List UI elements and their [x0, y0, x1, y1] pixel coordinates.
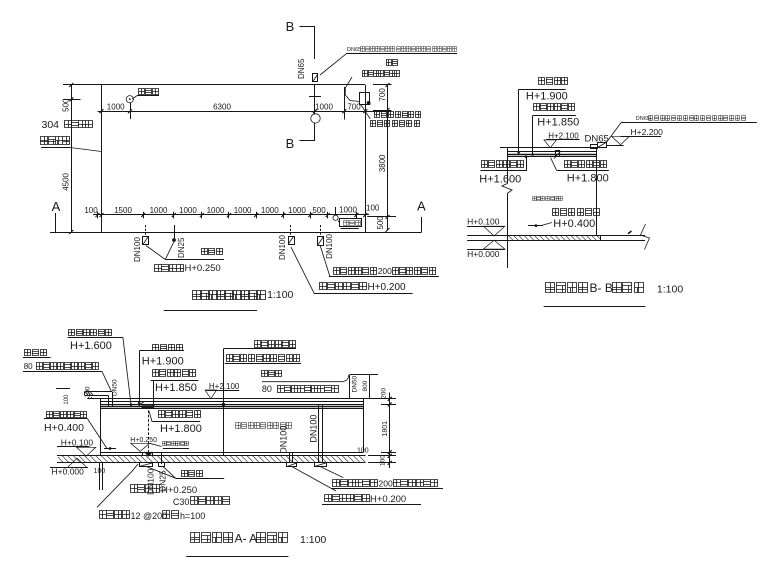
suction pipe bottom arrow — [145, 452, 152, 456]
floor slab A-A with hatch — [57, 455, 366, 457]
leader to low water mark A-A — [88, 419, 107, 449]
A-A title underline — [186, 556, 288, 558]
annotation drain install height H+0.200 A-A — [325, 495, 370, 502]
svg-text:H+0.200: H+0.200 — [370, 494, 406, 505]
svg-text:H+1.850: H+1.850 — [537, 117, 579, 129]
right gooseneck vent pipe A-A — [349, 375, 351, 399]
svg-text:A- A: A- A — [235, 532, 258, 546]
floor slab B-B with hatch — [467, 235, 645, 237]
svg-text:H+1.900: H+1.900 — [526, 91, 568, 103]
svg-text:DN100: DN100 — [325, 233, 334, 258]
svg-text:DN100: DN100 — [133, 237, 142, 262]
drain pipe DN100 — [289, 453, 291, 463]
label single layer rebar 12@200 h=100 — [100, 511, 130, 519]
leader from slab to rebar note — [97, 471, 132, 507]
vent arm line rising to gooseneck — [262, 375, 349, 382]
svg-text:DN65: DN65 — [585, 133, 609, 144]
svg-text:H+0.250: H+0.250 — [185, 263, 221, 274]
tiny text right of H+0.250 — [163, 442, 189, 446]
svg-text:H+1.600: H+1.600 — [479, 174, 521, 186]
svg-text:1000: 1000 — [315, 102, 333, 111]
outlet leaders A-A — [146, 466, 176, 478]
svg-text:200: 200 — [378, 266, 392, 276]
outlet DN25 below slab — [161, 453, 163, 465]
svg-text:DN65: DN65 — [297, 58, 306, 79]
svg-text:DN65: DN65 — [347, 47, 361, 53]
suction outlet pipe in tank (dashed) — [148, 406, 150, 453]
float valve circle on B-B cut line — [311, 114, 320, 123]
wall break zigzag — [502, 184, 512, 194]
svg-text:DN100: DN100 — [278, 235, 287, 260]
leader drain annotation — [291, 247, 314, 293]
plan overflow fitting DN100 — [289, 237, 295, 245]
svg-text:H+1.900: H+1.900 — [142, 356, 184, 368]
svg-text:DN25: DN25 — [177, 237, 186, 258]
water level lines A-A — [100, 404, 363, 406]
leader to left vent — [102, 371, 111, 391]
bottom dimension line — [93, 214, 369, 216]
svg-text:1000: 1000 — [339, 205, 357, 214]
plan outlet DN25 dot — [172, 238, 176, 242]
svg-text:700: 700 — [378, 88, 387, 102]
label max alarm level 最高报警水位 — [534, 104, 575, 111]
svg-text:H+0.250: H+0.250 — [161, 485, 197, 496]
tiny interior text B-B — [533, 197, 563, 201]
label FRP manhole cover — [363, 71, 400, 77]
section cut line A-A (plan bottom edge) — [50, 232, 422, 234]
tank bottom line — [100, 452, 363, 454]
svg-text:DN50: DN50 — [352, 375, 359, 392]
svg-text:1500: 1500 — [114, 206, 132, 215]
manhole annotation leader — [345, 77, 359, 102]
svg-text:80: 80 — [262, 384, 272, 394]
outlet flange below slab DN100 — [140, 463, 153, 467]
left gooseneck vent pipe — [85, 391, 113, 393]
label stainless ladder line1 — [375, 112, 421, 118]
svg-text:500: 500 — [62, 98, 71, 112]
svg-text:H+1.850: H+1.850 — [155, 382, 197, 394]
svg-text:3800: 3800 — [378, 154, 387, 172]
label vent pipe right 通气管 — [262, 371, 282, 377]
tank outline plan - top wall — [63, 84, 365, 86]
label outlet pipe 出水管 — [202, 249, 223, 255]
label level signal device 液位信号装置 — [255, 341, 296, 348]
svg-text:DN50: DN50 — [112, 379, 119, 396]
svg-text:1000: 1000 — [207, 206, 225, 215]
tank right wall A-A — [363, 399, 365, 453]
svg-text:800: 800 — [362, 380, 369, 391]
tank left wall A-A — [100, 399, 102, 456]
svg-text:200: 200 — [380, 388, 387, 399]
svg-text:100: 100 — [357, 447, 369, 454]
svg-text:1000: 1000 — [261, 206, 279, 215]
DN65 inlet connector symbol — [313, 74, 318, 82]
B-B title underline — [544, 306, 646, 308]
tank top line B-B — [500, 147, 597, 149]
svg-text:1:100: 1:100 — [657, 284, 683, 296]
svg-text:C30: C30 — [173, 497, 190, 507]
svg-text:H+0.400: H+0.400 — [553, 218, 595, 230]
svg-text:DN100: DN100 — [279, 426, 289, 454]
outlet leaders — [146, 246, 165, 260]
leader overflow annotation — [320, 246, 330, 277]
leaders to annotations right — [292, 467, 336, 491]
plan outlet DN100 fitting — [143, 237, 149, 245]
tank outline plan - left wall — [101, 85, 103, 232]
sensor tube in tank — [223, 349, 225, 456]
svg-text:H+0.200: H+0.200 — [368, 282, 407, 293]
manhole square — [360, 93, 370, 105]
svg-text:H+2.100: H+2.100 — [209, 382, 240, 391]
svg-text:H+0.000: H+0.000 — [467, 249, 500, 259]
svg-text:H+0.400: H+0.400 — [44, 422, 84, 434]
DN65 fill pipe stub and valve — [591, 145, 598, 149]
svg-text:1000: 1000 — [107, 102, 125, 111]
label 出水管 A-A — [182, 471, 203, 477]
svg-text:H+0.100: H+0.100 — [467, 217, 500, 227]
tank outline plan - right wall — [365, 85, 367, 232]
label min alarm level 最低报警水位 — [482, 161, 524, 168]
svg-text:1000: 1000 — [179, 206, 197, 215]
sensor mark at water line — [556, 151, 560, 157]
svg-text:H+1.600: H+1.600 — [70, 340, 112, 352]
label max effective level 最高有效水位 — [565, 161, 607, 168]
annotation drain pipe install height H+0.200 — [320, 283, 367, 290]
svg-text:1:100: 1:100 — [267, 289, 293, 301]
title underline — [164, 310, 257, 312]
svg-text:DN100: DN100 — [146, 468, 156, 495]
top dimension line 1000/6300/1000/700 — [98, 111, 392, 113]
leader to low water mark — [541, 223, 552, 226]
svg-text:h=100: h=100 — [180, 511, 205, 521]
svg-text:500: 500 — [312, 206, 326, 215]
vent pipe circle (plan left) — [126, 96, 133, 103]
vent pipe label top-left — [139, 89, 159, 95]
svg-text:12 @200: 12 @200 — [131, 511, 168, 521]
label signal to fire control center — [227, 355, 300, 362]
svg-text:H+1.800: H+1.800 — [160, 423, 202, 435]
right dimension line 700/3800/500 — [387, 85, 389, 230]
plan view title 成品不锈钢消防水箱 — [193, 291, 266, 300]
svg-text:4500: 4500 — [62, 172, 71, 190]
label max effective level 最高有效水位 A-A — [159, 411, 201, 418]
tank top double line A-A — [87, 398, 378, 400]
tank right wall B-B — [596, 148, 598, 236]
label vent pipe left 通气管 — [25, 350, 47, 356]
svg-text:100: 100 — [380, 455, 387, 466]
svg-text:A: A — [52, 199, 61, 214]
label overflow level 溢流水位 — [539, 78, 568, 85]
svg-text:6300: 6300 — [213, 102, 231, 111]
svg-text:1:100: 1:100 — [300, 534, 326, 546]
svg-text:100: 100 — [85, 386, 92, 397]
svg-text:DN65: DN65 — [636, 116, 650, 122]
tank left wall B-B — [507, 148, 509, 184]
annotation overflow 200 to floor A-A — [333, 480, 378, 487]
label manhole 人孔 — [387, 60, 398, 66]
svg-text:H+1.800: H+1.800 — [567, 172, 609, 184]
mesh cover hatch at vent opening — [86, 392, 89, 395]
left dimension line 500/4500 — [71, 85, 73, 232]
svg-text:1000: 1000 — [288, 206, 306, 215]
B-B title 消防水箱B- B剖面图 — [546, 283, 588, 293]
svg-text:80: 80 — [24, 362, 33, 371]
label install height H+0.250 — [155, 265, 184, 272]
svg-text:H+2.200: H+2.200 — [631, 127, 664, 137]
label min alarm 最低报警水位 A-A — [69, 330, 112, 336]
overflow pipe in tank DN100 — [318, 404, 320, 463]
svg-text:304: 304 — [42, 119, 60, 131]
svg-text:A: A — [417, 199, 426, 214]
svg-text:B: B — [286, 19, 295, 34]
label min effective level 最低有效水位 — [553, 209, 600, 216]
right dim line A-A — [389, 393, 391, 469]
svg-text:100: 100 — [64, 394, 70, 405]
weld ticks on top lip — [88, 397, 90, 399]
svg-text:1801: 1801 — [382, 421, 389, 437]
svg-text:B- B: B- B — [590, 281, 613, 295]
annotation overflow pipe 200 above floor — [334, 268, 377, 275]
tiny interior text A-A tank — [236, 423, 292, 429]
svg-text:B: B — [286, 136, 295, 151]
A-A title 消防水箱A- A剖面图 — [191, 533, 233, 543]
label ladder line2 — [371, 121, 420, 127]
label overflow 溢流水位 A-A — [153, 345, 183, 351]
svg-text:200: 200 — [379, 479, 393, 489]
flanges below slab right pair — [287, 463, 297, 467]
label max alarm 最高报警水位 A-A — [153, 370, 196, 377]
svg-text:1000: 1000 — [234, 206, 252, 215]
label min effective level 最低有效水位 A-A — [47, 412, 87, 418]
plan drain fitting DN100 — [318, 237, 324, 246]
label install height H+0.250 A-A — [131, 485, 160, 493]
svg-text:100: 100 — [366, 204, 380, 213]
svg-text:1000: 1000 — [150, 206, 168, 215]
svg-text:100: 100 — [84, 206, 98, 215]
water level lines B-B — [507, 151, 597, 153]
vent label box bottom right — [340, 219, 362, 227]
ground break symbol right — [641, 224, 650, 250]
svg-text:DN100: DN100 — [309, 415, 319, 443]
svg-text:500: 500 — [376, 216, 385, 230]
vent circle bottom right — [333, 215, 338, 220]
